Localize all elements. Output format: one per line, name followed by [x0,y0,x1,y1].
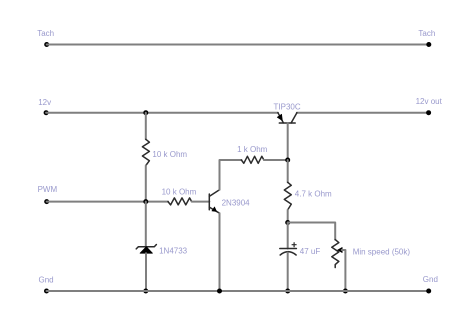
wire 12v to Q2 emitter [46,112,278,114]
wire R1 to PWM node [145,166,147,202]
wire node C to C1 [287,223,289,249]
transistor Q1 2N3904 (NPN) [209,190,219,214]
resistor R2 10k horizontal [168,198,192,205]
wire ground bus [47,290,429,292]
terminal PWM [44,199,49,204]
potentiometer R5 Min speed 50k [332,240,342,268]
junction Q1 emitter/ground [217,289,222,294]
svg-text:PWM: PWM [38,185,58,194]
resistor R4 4.7k vertical [284,182,291,210]
junction node C (R4 / C1 / R5) [285,220,290,225]
wire 12v to R1 [145,113,147,140]
svg-text:Tach: Tach [418,29,435,38]
svg-text:Gnd: Gnd [423,275,438,284]
svg-text:12v out: 12v out [416,97,443,106]
svg-text:TIP30C: TIP30C [274,102,301,111]
junction D1/ground [143,289,148,294]
wire R2 to Q1 base [192,201,210,203]
terminal Gnd right [426,289,431,294]
svg-text:Tach: Tach [37,29,54,38]
resistor R1 10k vertical [142,139,149,165]
junction 12v/R1 [143,110,148,115]
transistor Q2 TIP30C (PNP) [277,113,297,123]
wire node B to R4 [287,160,289,182]
svg-text:4.7 k Ohm: 4.7 k Ohm [295,190,332,199]
junction PWM/R1/D1 [143,199,148,204]
wire Tach bus [47,44,429,46]
terminal 12v out [426,110,431,115]
junction C1/ground [285,289,290,294]
svg-text:47 uF: 47 uF [300,247,321,256]
wire R5 wiper to ground [342,250,346,291]
terminal 12v left [44,110,49,115]
wire PWM node to D1 [145,202,147,247]
wire node C to R5 top [288,223,336,240]
svg-text:2N3904: 2N3904 [222,199,251,208]
svg-text:Min speed (50k): Min speed (50k) [353,248,411,257]
wire R4 to node C [287,210,289,223]
terminal Tach left [44,42,49,47]
svg-text:1N4733: 1N4733 [159,247,188,256]
junction R5 wiper/ground [343,289,348,294]
wire Q1 collector to R3 [220,160,242,190]
wire Q2 collector to 12v out [297,112,429,114]
junction node B (Q2 base / R3 / R4) [285,158,290,163]
wire C1 to ground [287,253,289,291]
svg-text:10 k Ohm: 10 k Ohm [162,188,197,197]
wire Q1 emitter to ground [219,213,221,291]
capacitor C1 47uF (polarized) [280,243,297,255]
wire PWM to R2 [47,201,168,203]
resistor R3 1k horizontal [241,156,264,163]
wire D1 to ground [145,253,147,291]
wire Q2 base to node B [287,123,289,160]
terminal Tach right [426,42,431,47]
svg-text:Gnd: Gnd [39,276,54,285]
wire R3 to node B [264,159,288,161]
svg-text:12v: 12v [38,98,51,107]
diode D1 1N4733 (zener) [136,245,156,254]
terminal Gnd left [44,289,49,294]
svg-text:1 k Ohm: 1 k Ohm [237,145,268,154]
svg-text:10 k Ohm: 10 k Ohm [152,150,187,159]
